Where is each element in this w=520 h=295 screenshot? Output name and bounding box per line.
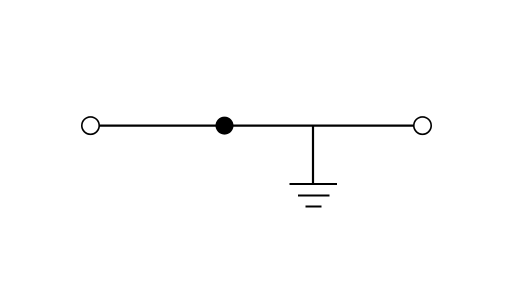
- wire: [91, 124, 423, 126]
- junction node: [216, 117, 234, 135]
- terminal (left): [82, 117, 99, 134]
- wire: [312, 126, 314, 184]
- ground: [290, 184, 338, 207]
- terminal (right): [414, 117, 431, 134]
